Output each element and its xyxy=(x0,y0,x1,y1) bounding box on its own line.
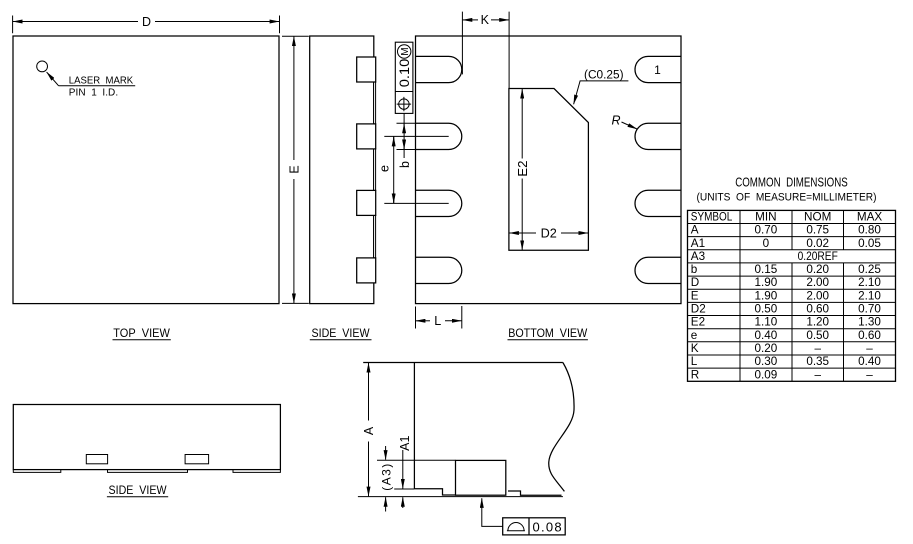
svg-text:0.20: 0.20 xyxy=(755,342,778,355)
svg-text:MAX: MAX xyxy=(857,211,883,224)
pad L4 xyxy=(416,257,462,283)
svg-text:0.10: 0.10 xyxy=(396,59,412,88)
svg-text:0.50: 0.50 xyxy=(755,303,778,316)
svg-text:0.30: 0.30 xyxy=(755,355,778,368)
side view pin 3 xyxy=(357,190,376,215)
side view pin 2 xyxy=(357,124,376,149)
label TOP VIEW xyxy=(113,326,171,340)
svg-text:0.25: 0.25 xyxy=(858,263,881,276)
svg-text:0.40: 0.40 xyxy=(755,329,778,342)
dimension L xyxy=(416,306,462,329)
svg-text:0.35: 0.35 xyxy=(806,355,829,368)
svg-text:SYMBOL: SYMBOL xyxy=(691,211,733,224)
side view edge strip between pins xyxy=(374,82,376,124)
svg-text:TOP VIEW: TOP VIEW xyxy=(113,326,170,340)
svg-text:MIN: MIN xyxy=(755,211,776,224)
svg-text:K: K xyxy=(691,342,699,355)
svg-text:D: D xyxy=(691,276,699,289)
svg-text:1.90: 1.90 xyxy=(755,289,778,302)
svg-text:–: – xyxy=(866,368,873,381)
radius note R xyxy=(611,114,637,129)
pad L2 xyxy=(416,123,462,149)
terminal top extension line xyxy=(377,459,456,461)
dimension e xyxy=(378,136,449,203)
feature control frame 0.10 M xyxy=(395,42,413,113)
svg-text:E: E xyxy=(691,289,699,302)
svg-text:E2: E2 xyxy=(691,316,705,329)
svg-text:2.00: 2.00 xyxy=(806,276,829,289)
svg-text:0.70: 0.70 xyxy=(755,224,778,237)
dimension E2 xyxy=(515,89,530,250)
svg-text:–: – xyxy=(866,342,873,355)
detail view break curve xyxy=(549,363,574,492)
svg-text:A: A xyxy=(691,224,699,237)
svg-text:1.10: 1.10 xyxy=(755,316,778,329)
pad L3 xyxy=(416,190,462,216)
svg-text:R: R xyxy=(691,368,699,381)
dimension K xyxy=(462,12,509,89)
pad L1 xyxy=(416,56,462,82)
table text xyxy=(691,211,883,382)
dimension D xyxy=(13,15,280,33)
svg-text:0.08: 0.08 xyxy=(532,519,561,534)
lower side view body xyxy=(13,405,280,470)
svg-text:D2: D2 xyxy=(691,303,706,316)
svg-text:1: 1 xyxy=(654,63,661,77)
side view body xyxy=(310,36,374,304)
dimension (A3) xyxy=(380,446,394,512)
side view pin 4 xyxy=(357,258,376,283)
svg-text:1.20: 1.20 xyxy=(806,316,829,329)
svg-text:A1: A1 xyxy=(398,436,412,451)
dimension A1 xyxy=(394,436,414,508)
laser mark leader arrow xyxy=(47,72,59,86)
svg-text:E: E xyxy=(287,165,301,173)
dimension E xyxy=(282,36,309,303)
svg-text:0.05: 0.05 xyxy=(858,237,881,250)
top view body xyxy=(13,36,279,304)
table title xyxy=(697,176,877,204)
chamfer note (C0.25) xyxy=(574,69,629,104)
seating plane line xyxy=(358,496,563,498)
svg-text:0.20: 0.20 xyxy=(806,263,829,276)
side view pin 1 xyxy=(357,57,376,82)
svg-text:0.50: 0.50 xyxy=(806,329,829,342)
label BOTTOM VIEW xyxy=(508,326,588,340)
svg-text:COMMON DIMENSIONS: COMMON DIMENSIONS xyxy=(735,176,848,190)
svg-text:A3: A3 xyxy=(691,250,705,263)
label SIDE VIEW (lower) xyxy=(107,483,168,497)
dimensions table grid xyxy=(688,210,896,381)
svg-text:0.75: 0.75 xyxy=(806,224,829,237)
detail view body outline xyxy=(363,363,563,496)
dimension b xyxy=(397,123,417,168)
feature control frame 0.08 xyxy=(503,518,566,535)
svg-text:K: K xyxy=(481,13,490,27)
svg-text:SIDE VIEW: SIDE VIEW xyxy=(109,483,168,497)
pad R1 (pin 1) xyxy=(635,56,681,82)
laser mark circle xyxy=(37,61,48,72)
svg-text:2.10: 2.10 xyxy=(858,276,881,289)
svg-text:0.40: 0.40 xyxy=(858,355,881,368)
leader from 0.08 frame to seating plane xyxy=(482,498,503,526)
lower side view bottom lips xyxy=(13,470,61,473)
leader from frame to b dimension xyxy=(403,113,405,158)
svg-text:A1: A1 xyxy=(691,237,705,250)
svg-text:E2: E2 xyxy=(515,160,530,176)
svg-text:0.20REF: 0.20REF xyxy=(798,250,838,263)
thermal pad (D2 x E2) with chamfer xyxy=(509,89,589,251)
svg-text:2.00: 2.00 xyxy=(806,289,829,302)
svg-text:e: e xyxy=(691,329,698,342)
svg-text:b: b xyxy=(398,161,412,168)
svg-text:b: b xyxy=(691,263,698,276)
pad R3 xyxy=(635,190,681,216)
svg-text:0.09: 0.09 xyxy=(755,368,778,381)
dimension D2 xyxy=(509,225,588,240)
svg-text:0.70: 0.70 xyxy=(858,303,881,316)
svg-text:BOTTOM VIEW: BOTTOM VIEW xyxy=(508,326,588,340)
label SIDE VIEW xyxy=(310,326,372,340)
pad R2 xyxy=(635,123,681,149)
bottom view body xyxy=(416,36,682,304)
svg-text:0.15: 0.15 xyxy=(755,263,778,276)
svg-text:NOM: NOM xyxy=(804,211,831,224)
svg-text:1.30: 1.30 xyxy=(858,316,881,329)
svg-text:–: – xyxy=(814,342,821,355)
svg-text:LASER MARK: LASER MARK xyxy=(69,76,134,87)
svg-text:(A3): (A3) xyxy=(380,464,394,491)
lower side view terminal pads xyxy=(86,455,107,464)
svg-text:0.60: 0.60 xyxy=(858,329,881,342)
svg-text:D: D xyxy=(142,15,151,29)
svg-text:R: R xyxy=(611,114,620,128)
laser mark text xyxy=(69,76,134,99)
pad R4 xyxy=(635,257,681,283)
svg-text:0.80: 0.80 xyxy=(858,224,881,237)
svg-text:–: – xyxy=(814,368,821,381)
svg-text:L: L xyxy=(691,355,698,368)
svg-text:2.10: 2.10 xyxy=(858,289,881,302)
svg-text:(C0.25): (C0.25) xyxy=(584,69,624,81)
svg-text:SIDE VIEW: SIDE VIEW xyxy=(312,326,371,340)
svg-text:0.02: 0.02 xyxy=(806,237,829,250)
svg-text:1.90: 1.90 xyxy=(755,276,778,289)
svg-text:A: A xyxy=(362,426,376,435)
detail view terminal xyxy=(456,460,506,495)
svg-text:L: L xyxy=(434,314,441,328)
dimension A xyxy=(362,363,376,496)
svg-text:e: e xyxy=(378,165,392,172)
svg-text:M: M xyxy=(400,47,411,55)
svg-text:D2: D2 xyxy=(541,225,557,240)
svg-text:PIN 1 I.D.: PIN 1 I.D. xyxy=(69,87,118,98)
svg-text:0.60: 0.60 xyxy=(806,303,829,316)
svg-text:(UNITS OF MEASURE=MILLIMETER: (UNITS OF MEASURE=MILLIMETER) xyxy=(697,192,877,204)
svg-text:0: 0 xyxy=(763,237,770,250)
